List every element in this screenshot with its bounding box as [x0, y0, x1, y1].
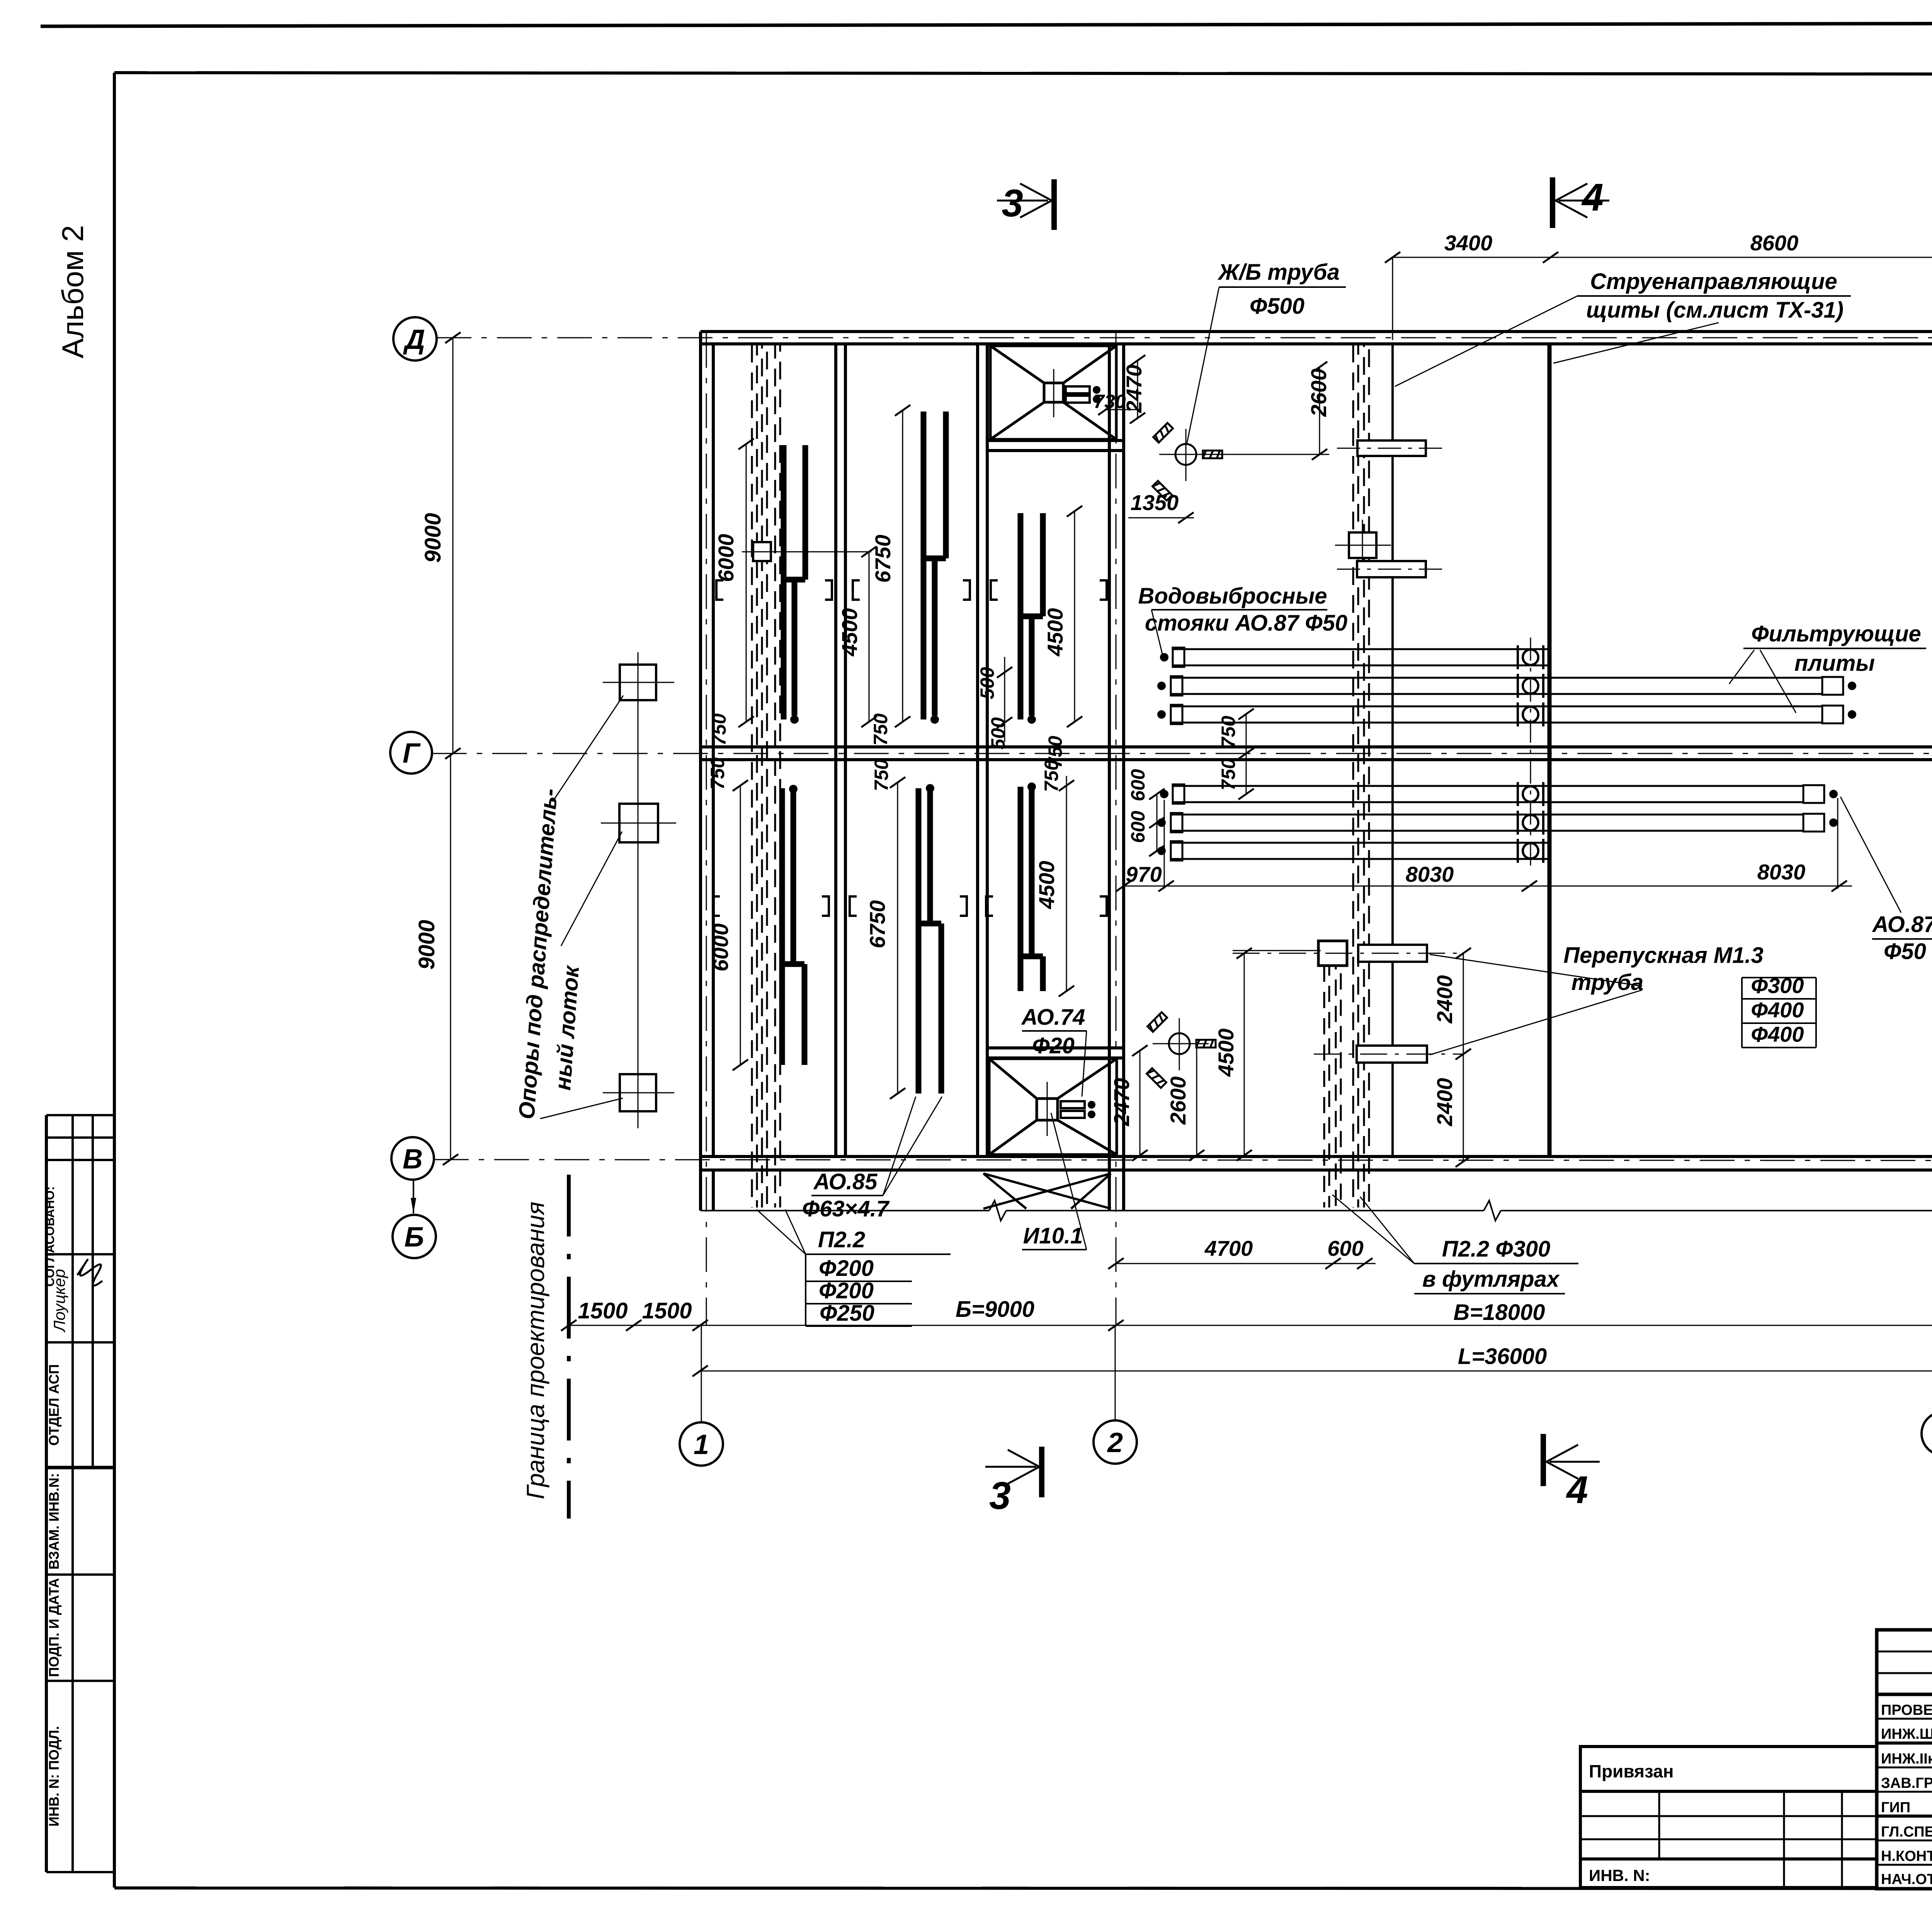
pipe P2	[1171, 677, 1822, 679]
axis V line	[434, 1160, 1932, 1161]
axis circle leaders	[701, 1325, 1932, 1422]
dims 750/750 at G mid pipes	[1238, 709, 1254, 799]
svg-text:В: В	[403, 1144, 423, 1175]
svg-text:Б: Б	[405, 1222, 424, 1253]
aerators channel3 upper	[1020, 513, 1043, 719]
expansion joint brackets lower row	[713, 896, 720, 916]
dim row 970/8030/8030	[1116, 881, 1852, 891]
svg-text:6000: 6000	[708, 923, 733, 972]
sprinkler upper	[1153, 423, 1222, 501]
dim 6750 upper ch2	[895, 405, 910, 727]
svg-text:6750: 6750	[865, 900, 889, 949]
svg-text:6750: 6750	[871, 535, 895, 583]
svg-text:2: 2	[1107, 1427, 1123, 1458]
svg-text:Ж/Б труба: Ж/Б труба	[1217, 260, 1340, 285]
INTERNALS	[601, 345, 1856, 1209]
svg-text:3: 3	[1002, 182, 1023, 225]
svg-text:750: 750	[1218, 716, 1239, 748]
svg-text:9000: 9000	[420, 513, 446, 563]
svg-text:Ф400: Ф400	[1751, 998, 1804, 1022]
svg-text:L=36000: L=36000	[1458, 1344, 1547, 1369]
svg-text:9000: 9000	[414, 920, 439, 969]
axis 3 circle	[1922, 1412, 1932, 1455]
dim 2470 lower	[1132, 1045, 1148, 1161]
dim 730 upper hopper	[1105, 409, 1136, 410]
pipe end dots	[1160, 653, 1168, 662]
svg-text:Фильтрующие: Фильтрующие	[1751, 621, 1921, 646]
axis D circle	[393, 317, 437, 361]
svg-text:ИНВ. N:: ИНВ. N:	[1589, 1866, 1650, 1884]
perepusk pipe rect upper	[1358, 945, 1427, 962]
svg-text:АО.87: АО.87	[1872, 912, 1932, 937]
svg-text:ГЛ.СПЕЦ.: ГЛ.СПЕЦ.	[1881, 1824, 1932, 1840]
pipe P4	[1173, 785, 1803, 787]
svg-text:Граница проектирования: Граница проектирования	[522, 1202, 549, 1499]
svg-text:ИНЖ.Шкат: ИНЖ.Шкат	[1881, 1726, 1932, 1742]
svg-text:750: 750	[1041, 760, 1062, 792]
section mark 3 top	[1051, 179, 1057, 230]
svg-text:Н.КОНТР.: Н.КОНТР.	[1881, 1848, 1932, 1864]
svg-text:4500: 4500	[837, 608, 862, 657]
aerators channel3 lower	[1020, 787, 1043, 991]
dim 4500 lower ch3	[1059, 776, 1074, 997]
section mark 4 bottom	[1541, 1434, 1546, 1486]
dim 6000 upper ch1	[738, 439, 754, 727]
svg-text:труба: труба	[1571, 970, 1644, 995]
left stamp column	[46, 1115, 114, 1872]
svg-text:ОТДЕЛ АСП: ОТДЕЛ АСП	[46, 1364, 62, 1446]
DIMS	[707, 231, 1932, 1269]
svg-text:2400: 2400	[1432, 975, 1457, 1024]
svg-text:2400: 2400	[1432, 1078, 1457, 1127]
left dim 9000 D-G	[445, 332, 461, 759]
svg-text:Ф20: Ф20	[1032, 1033, 1075, 1058]
perepusk pipe rect lower	[1357, 1046, 1427, 1063]
pipe flanges at screen2	[1518, 645, 1543, 863]
aerators channel1 lower	[782, 788, 804, 1065]
svg-text:Альбом 2: Альбом 2	[56, 225, 90, 359]
svg-text:1500: 1500	[578, 1298, 628, 1323]
svg-text:3400: 3400	[1444, 231, 1493, 255]
expansion joint brackets upper row	[713, 580, 1107, 916]
svg-text:В=18000: В=18000	[1453, 1300, 1545, 1325]
svg-text:730: 730	[1094, 391, 1126, 412]
perepusk dashed pair	[1324, 966, 1341, 1207]
svg-text:Д: Д	[403, 324, 425, 355]
apron bottom line with break marks	[701, 1201, 1932, 1221]
TITLEBLOCK	[1580, 1630, 1932, 1894]
svg-text:ПОДП. И ДАТА: ПОДП. И ДАТА	[46, 1578, 62, 1677]
svg-text:Привязан: Привязан	[1589, 1761, 1674, 1781]
svg-text:Водовыбросные: Водовыбросные	[1138, 583, 1327, 609]
svg-text:2470: 2470	[1109, 1078, 1134, 1127]
svg-text:стояки АО.87 Ф50: стояки АО.87 Ф50	[1145, 611, 1347, 636]
hopper lower flanges	[1061, 1101, 1085, 1118]
svg-text:970: 970	[1126, 862, 1162, 886]
svg-text:Б=9000: Б=9000	[956, 1297, 1034, 1322]
dims 2400/2400	[1456, 948, 1471, 1167]
axis dash-dot lines	[432, 333, 1932, 1325]
roles and names	[1881, 1702, 1932, 1888]
hopper upper (channel 3 top)	[987, 346, 1122, 451]
dim 8600 top	[1551, 252, 1932, 340]
axis G circle	[390, 732, 432, 774]
svg-text:600: 600	[1127, 769, 1149, 801]
svg-text:8030: 8030	[1757, 860, 1806, 884]
axis 2 wall	[1108, 344, 1111, 1211]
svg-text:750: 750	[871, 759, 892, 791]
support square on pipes	[753, 542, 771, 561]
aerators channel1 upper	[784, 445, 805, 719]
sprinkler lower	[1147, 1012, 1216, 1088]
granitsa line left	[567, 1175, 571, 1519]
bottom dim row 2 L=36000	[692, 1366, 1932, 1376]
inner frame left	[113, 73, 116, 1888]
svg-text:1500: 1500	[642, 1298, 692, 1323]
svg-text:Г: Г	[403, 738, 421, 769]
left dim 9000 G-V	[443, 753, 458, 1165]
svg-text:НАЧ.ОТД.: НАЧ.ОТД.	[1881, 1871, 1932, 1888]
svg-text:4500: 4500	[1214, 1029, 1238, 1077]
svg-text:4500: 4500	[1043, 608, 1067, 657]
axis V circle	[391, 1137, 434, 1180]
axis 1 circle	[680, 1422, 723, 1466]
wall axis V	[701, 1155, 1932, 1158]
axis 1 line	[706, 333, 707, 1325]
sheet outer top edge	[41, 22, 1932, 26]
AXES	[390, 158, 1932, 1519]
channel separator wall A	[834, 344, 837, 1156]
svg-text:Ф500: Ф500	[1250, 294, 1304, 319]
wall axis G	[701, 745, 1932, 748]
svg-text:8030: 8030	[1406, 862, 1454, 886]
svg-text:750: 750	[870, 713, 891, 746]
svg-text:ВЗАМ. ИНВ.N:: ВЗАМ. ИНВ.N:	[46, 1473, 62, 1570]
flow-guide screen 2	[1548, 344, 1552, 1156]
svg-text:750: 750	[707, 757, 728, 790]
svg-text:плиты: плиты	[1794, 651, 1875, 676]
dim 4500 upper ch1-2	[746, 546, 877, 727]
bottom dim row 1	[561, 1320, 1932, 1331]
title block frame	[1877, 1630, 1932, 1889]
svg-text:6000: 6000	[714, 534, 738, 582]
dim 2600 upper	[1194, 362, 1329, 460]
axis G line	[432, 753, 1932, 754]
pipe P1	[1173, 648, 1549, 650]
dim row 4700/600	[1108, 1258, 1376, 1269]
perepusk box	[1318, 941, 1347, 966]
dim 6000 lower ch1	[733, 780, 748, 1070]
svg-text:щиты (см.лист ТХ-31): щиты (см.лист ТХ-31)	[1586, 298, 1844, 323]
distribution trough support squares	[619, 665, 658, 1111]
section mark 4 top	[1550, 177, 1555, 228]
aerators channel2 upper	[923, 412, 946, 719]
axis D line	[437, 337, 1932, 338]
hopper lower (channel 3 bottom)	[987, 1048, 1122, 1155]
svg-text:4: 4	[1581, 176, 1604, 219]
svg-text:1350: 1350	[1131, 490, 1179, 515]
svg-text:4: 4	[1566, 1468, 1588, 1512]
svg-text:АО.74: АО.74	[1021, 1005, 1085, 1030]
axis 2 circle	[1094, 1420, 1137, 1464]
svg-text:ПРОВЕР.: ПРОВЕР.	[1881, 1702, 1932, 1718]
arrow V to B	[413, 1180, 414, 1213]
wall crossing pipe rect 1	[1357, 440, 1426, 456]
flow-guide screen 1	[1391, 344, 1394, 1156]
pipe P3	[1171, 706, 1822, 707]
svg-text:в футлярах: в футлярах	[1422, 1267, 1560, 1292]
svg-text:Лоуцкер: Лоуцкер	[50, 1269, 68, 1333]
П2.2 Ф300 dashed bundle middle	[1353, 345, 1369, 1207]
inner frame top	[114, 73, 1932, 75]
svg-text:ИНВ. N: ПОДЛ.: ИНВ. N: ПОДЛ.	[46, 1726, 62, 1827]
svg-text:2600: 2600	[1166, 1077, 1190, 1125]
svg-text:1: 1	[694, 1429, 709, 1460]
П2.2 dashed pipes left bundle	[752, 345, 780, 1207]
svg-text:И10.1: И10.1	[1023, 1223, 1083, 1248]
dim 6750 lower ch2	[890, 777, 905, 1099]
svg-text:П2.2 Ф300: П2.2 Ф300	[1442, 1236, 1551, 1262]
axis B circle	[393, 1215, 436, 1258]
channel separator wall B	[976, 344, 979, 1156]
svg-text:600: 600	[1127, 811, 1149, 843]
svg-text:750: 750	[1218, 758, 1239, 791]
filter pipes	[1171, 648, 1843, 861]
svg-text:4500: 4500	[1034, 861, 1059, 910]
left grid thin	[1877, 1630, 1932, 1889]
svg-text:Ф50: Ф50	[1884, 939, 1926, 964]
svg-text:500: 500	[976, 667, 998, 699]
svg-text:4700: 4700	[1204, 1236, 1253, 1260]
section mark 3 bottom	[1039, 1447, 1044, 1497]
flange column centerline	[1530, 638, 1531, 869]
axis 2 line	[1116, 333, 1117, 1325]
inner frame bottom	[114, 1888, 1932, 1889]
dim 2470 upper	[1130, 355, 1145, 423]
svg-text:750: 750	[708, 713, 730, 746]
aerators channel2 lower	[918, 788, 941, 1094]
outlet hopper below axis V	[983, 1173, 1111, 1209]
svg-text:Ф250: Ф250	[820, 1301, 874, 1326]
svg-text:Ф200: Ф200	[819, 1278, 874, 1303]
svg-text:8600: 8600	[1750, 231, 1799, 255]
svg-text:3: 3	[989, 1474, 1011, 1517]
support square mid	[1349, 532, 1376, 558]
wall crossing pipe rect 2	[1357, 561, 1426, 577]
svg-text:500: 500	[987, 717, 1009, 750]
signature squiggle	[77, 1260, 102, 1286]
svg-text:600: 600	[1327, 1236, 1363, 1260]
hopper upper flanges	[1066, 386, 1090, 403]
dim 4500 mid lower	[1233, 948, 1321, 1161]
privyazan block	[1580, 1747, 1877, 1888]
svg-text:Ф200: Ф200	[819, 1256, 874, 1281]
dims 500/500 upper ch3	[997, 657, 1012, 742]
svg-text:2600: 2600	[1306, 369, 1331, 417]
dim 2600 lower	[1189, 1044, 1204, 1161]
svg-text:Струенаправляющие: Струенаправляющие	[1590, 269, 1837, 294]
left wall (axis 1)	[699, 332, 702, 1211]
pipe P6	[1171, 842, 1549, 844]
dim 4500 upper ch3	[1067, 506, 1082, 727]
WALLS	[701, 332, 1932, 1221]
top wall (axis D)	[701, 330, 1932, 333]
svg-text:Ф400: Ф400	[1751, 1022, 1804, 1046]
svg-text:П2.2: П2.2	[818, 1227, 865, 1252]
dim 3400 top	[1385, 252, 1558, 340]
svg-text:Перепускная М1.3: Перепускная М1.3	[1563, 943, 1764, 968]
dims 600/600 lower pipes	[1149, 789, 1165, 856]
svg-text:АО.85: АО.85	[813, 1169, 878, 1194]
pipe P5	[1171, 814, 1803, 816]
svg-text:ИНЖ.IIкат.: ИНЖ.IIкат.	[1881, 1751, 1932, 1767]
svg-text:ЗАВ.ГР.: ЗАВ.ГР.	[1881, 1775, 1932, 1791]
svg-text:Ф63×4.7: Ф63×4.7	[802, 1196, 890, 1221]
svg-text:ГИП: ГИП	[1881, 1799, 1910, 1816]
